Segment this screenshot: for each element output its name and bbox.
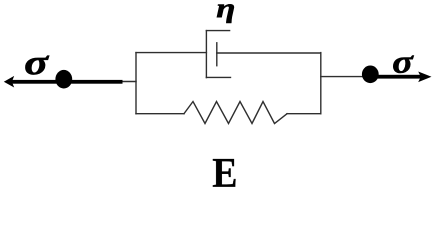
svg-text:σ: σ bbox=[392, 43, 414, 80]
svg-text:E: E bbox=[212, 149, 237, 190]
svg-text:η: η bbox=[216, 0, 235, 23]
svg-text:σ: σ bbox=[24, 43, 50, 81]
